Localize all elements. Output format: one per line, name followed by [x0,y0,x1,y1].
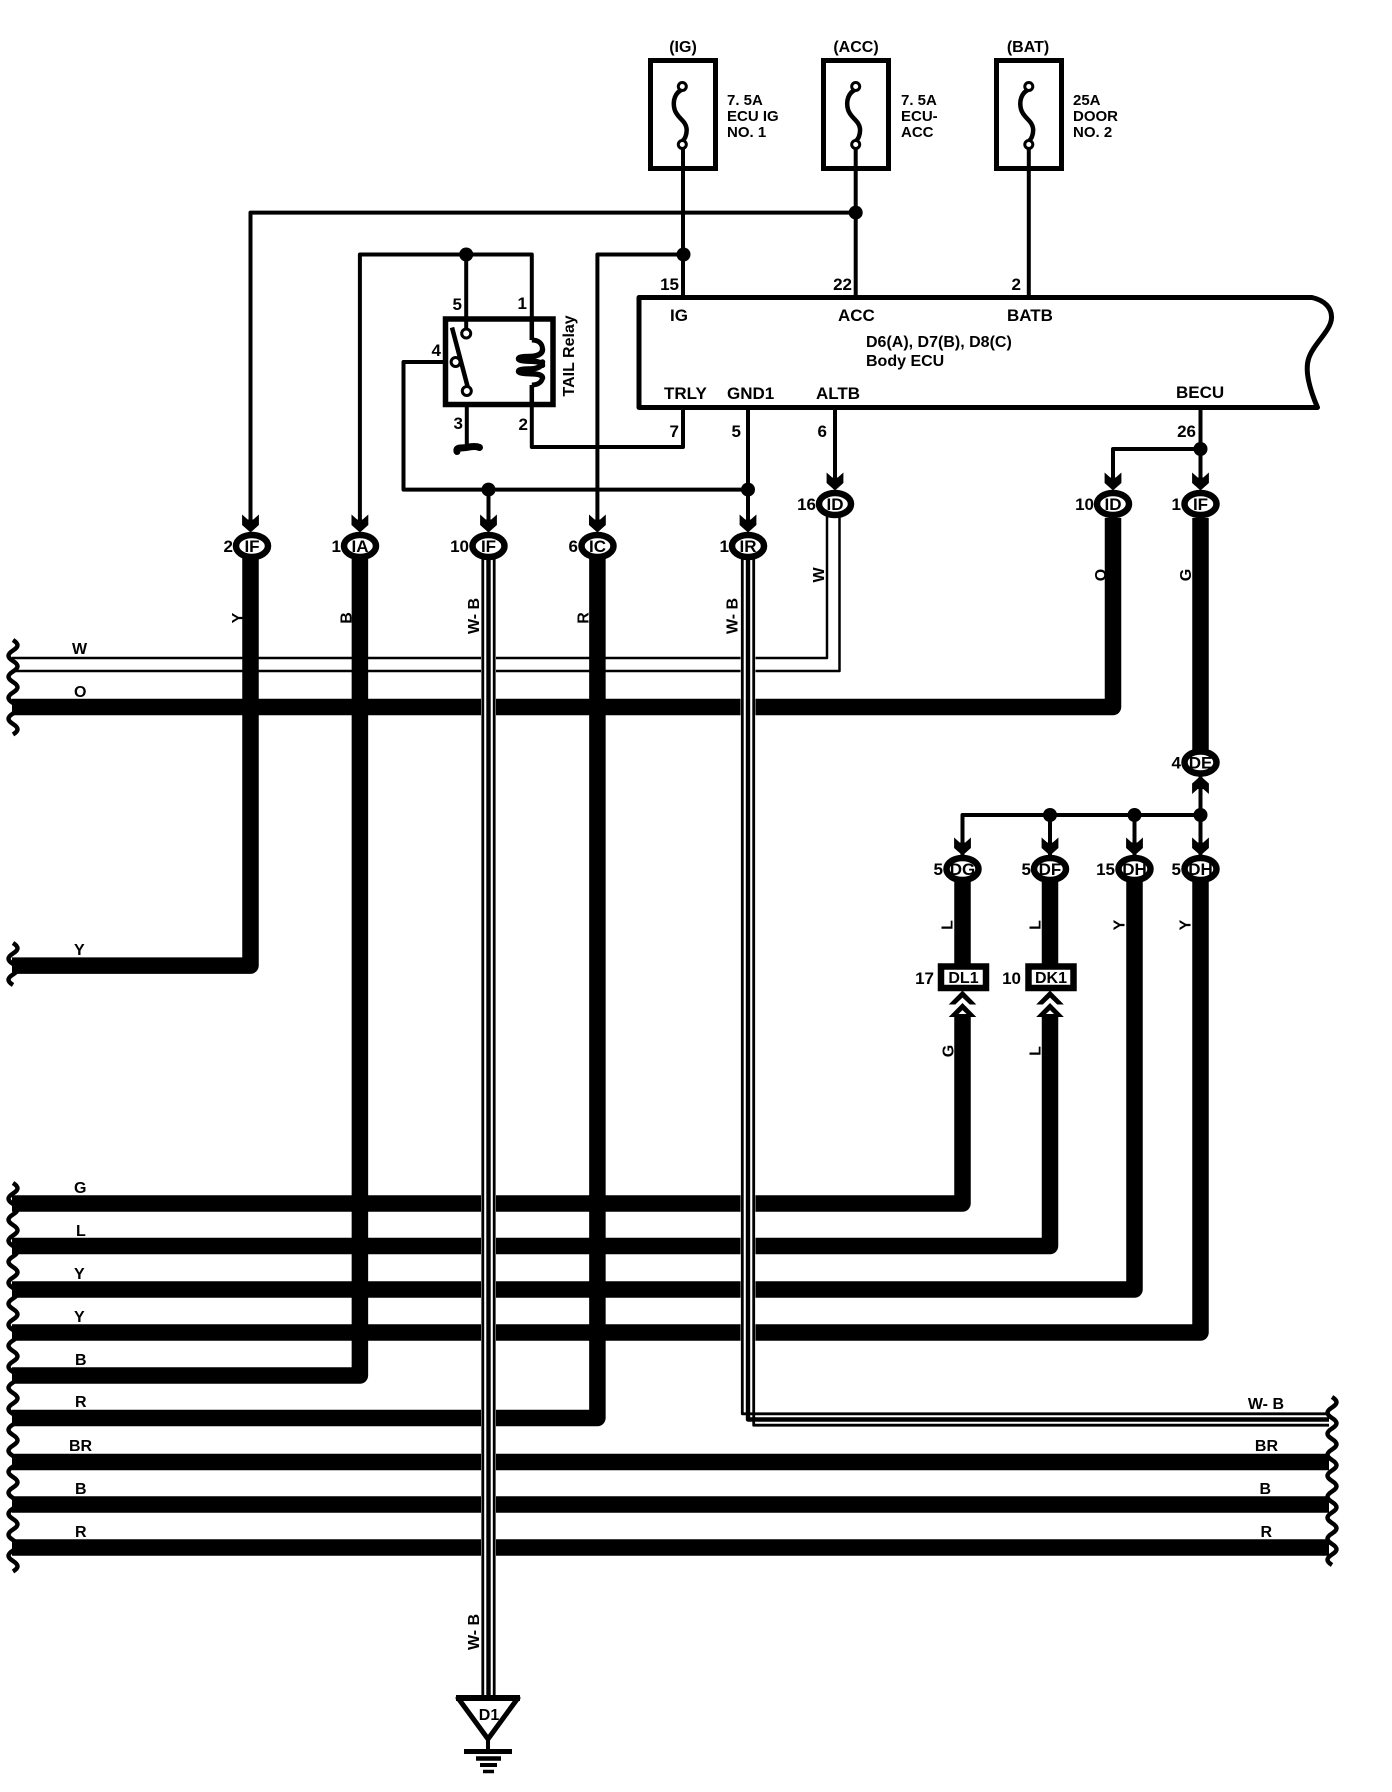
svg-text:L: L [940,920,957,930]
wire relay pin 2 to ECU pin 7 TRLY [532,404,683,447]
junction GND1 rail at IF10 [482,483,496,497]
Body ECU box D6(A) D7(B) D8(C) [639,298,1332,408]
svg-text:1: 1 [720,537,729,556]
arrow into DG [954,838,971,856]
svg-text:W- B: W- B [466,1614,483,1650]
connector IA [332,535,376,557]
connector IF2 [224,535,268,557]
svg-text:IF: IF [1193,495,1208,514]
svg-text:17: 17 [915,969,934,988]
wire L from DF to DK1 [1042,879,1059,967]
relay coil [519,316,543,407]
svg-text:IF: IF [481,537,496,556]
junction rail at DH5 [1194,808,1208,822]
arrow into IC [589,515,606,533]
arrow into IF10 [480,515,497,533]
relay contact pin 3 [462,387,471,396]
body ground below relay pin 3 [457,447,480,452]
wire ECU pin 26 BECU down and branch [1113,408,1201,484]
svg-text:10: 10 [450,537,469,556]
ground D1 earth bars [464,1739,512,1772]
svg-text:16: 16 [797,495,816,514]
ground D1 triangle [456,1698,520,1739]
wire relay pins 5-1 to connector IA [360,255,532,525]
svg-text:D1: D1 [479,1707,500,1724]
connector IR [720,535,764,557]
svg-text:2: 2 [519,415,528,434]
svg-text:IC: IC [589,537,606,556]
junction rail at DF [1043,808,1057,822]
connector DE [1172,752,1217,774]
svg-text:DH: DH [1122,860,1147,879]
svg-text:R: R [576,612,593,624]
svg-text:BECU: BECU [1176,383,1224,402]
svg-text:L: L [1028,1046,1045,1056]
svg-text:4: 4 [432,341,442,360]
wire DE to distribution rail [1199,775,1203,815]
wire W double line from ID16 to left edge [12,512,840,671]
svg-text:10: 10 [1075,495,1094,514]
connector DK1 box [1002,967,1073,989]
wire Y from DH15 to left edge [12,879,1135,1290]
svg-text:ACC: ACC [838,306,875,325]
svg-text:W- B: W- B [466,598,483,634]
wire BR full width [12,1454,1329,1471]
svg-text:G: G [74,1180,86,1197]
svg-text:G: G [1178,569,1195,581]
svg-text:ACC: ACC [901,124,934,141]
svg-text:DOOR: DOOR [1073,108,1118,125]
svg-text:B: B [75,1481,87,1498]
wire L from DG to DL1 [954,879,971,967]
wire fuse ACC to ECU pin 22 [854,148,858,297]
svg-text:W: W [72,641,88,658]
svg-text:B: B [1259,1481,1271,1498]
connector IF10 [450,535,504,557]
svg-text:Y: Y [74,1266,85,1283]
junction GND1 rail at IR [741,483,755,497]
connector ID10 [1075,493,1129,515]
arrow into IF1 [1192,473,1209,491]
svg-text:B: B [75,1352,87,1369]
connector IF1 [1172,493,1217,515]
connector DF [1022,858,1066,880]
squiggle left edge Y [9,943,18,985]
wire W-B striped from IF10 to ground D1 [483,556,494,1700]
svg-text:BR: BR [1255,1438,1279,1455]
double chevron into DL1 [949,991,977,1018]
svg-text:1: 1 [332,537,341,556]
squiggle right edge [1328,1397,1337,1565]
wire L from DK1 to left edge [12,1014,1050,1246]
wire Y from DH5 to left edge [12,879,1201,1333]
arrow into ID10 [1105,473,1122,491]
svg-text:DG: DG [950,860,976,879]
junction rail at DH15 [1128,808,1142,822]
svg-text:DF: DF [1039,860,1062,879]
svg-text:TRLY: TRLY [664,384,707,403]
connector ID16 [797,493,851,515]
arrow into IF2 [242,515,259,533]
svg-text:G: G [941,1045,958,1057]
svg-text:5: 5 [453,295,462,314]
arrow into DF [1042,838,1059,856]
connector DH15 [1096,858,1150,880]
arrow into IA [352,515,369,533]
svg-text:26: 26 [1177,422,1196,441]
arrow into ID16 [827,473,844,491]
svg-text:5: 5 [1172,860,1181,879]
svg-text:DH: DH [1188,860,1213,879]
svg-text:L: L [76,1223,86,1240]
connector DL1 box [915,967,986,989]
wire Y from IF2 to left edge [12,556,251,966]
wire B full width [12,1496,1329,1513]
svg-text:5: 5 [1022,860,1031,879]
fuse ACC (7.5A ECU-ACC) [824,39,938,169]
svg-text:D6(A), D7(B), D8(C): D6(A), D7(B), D8(C) [866,334,1012,351]
relay switch arm [452,328,469,391]
svg-text:4: 4 [1172,754,1182,773]
svg-text:W- B: W- B [1248,1396,1284,1413]
svg-text:ECU-: ECU- [901,108,938,125]
double chevron into DK1 [1036,991,1064,1018]
svg-text:O: O [74,684,86,701]
wire W-B striped from IR to right edge [742,556,1329,1425]
svg-text:5: 5 [732,422,741,441]
connector IC [569,535,614,557]
svg-text:GND1: GND1 [727,384,774,403]
svg-text:7. 5A: 7. 5A [727,92,763,109]
wire fuse BAT to ECU pin 2 [1027,148,1031,297]
wire ACC branch to connector IF2 [251,213,856,524]
svg-text:(IG): (IG) [669,39,697,56]
svg-text:6: 6 [818,422,827,441]
svg-text:BATB: BATB [1007,306,1053,325]
wire relay pin 5 stub [464,255,468,331]
svg-text:R: R [1260,1524,1272,1541]
svg-text:Y: Y [74,1309,85,1326]
svg-text:ECU IG: ECU IG [727,108,779,125]
svg-text:ID: ID [1105,495,1122,514]
svg-text:Y: Y [1112,919,1129,930]
squiggle left edge W O [9,640,18,735]
svg-text:10: 10 [1002,969,1021,988]
svg-text:W- B: W- B [725,598,742,634]
svg-text:BR: BR [69,1438,93,1455]
arrow into DH5 [1192,838,1209,856]
relay contact pin 4 [451,358,460,367]
svg-text:Y: Y [74,942,85,959]
svg-text:2: 2 [1012,275,1021,294]
svg-text:IF: IF [244,537,259,556]
svg-text:TAIL Relay: TAIL Relay [561,315,578,396]
arrow into IR [740,515,757,533]
junction IG branch [677,248,691,262]
svg-text:NO. 2: NO. 2 [1073,124,1112,141]
wire R full width [12,1539,1329,1556]
wire relay pin 4 to GND1 rail [404,362,749,490]
connector DH5 [1172,858,1217,880]
junction relay pin 5 [459,248,473,262]
svg-text:R: R [75,1524,87,1541]
svg-text:15: 15 [1096,860,1115,879]
junction BECU branch [1194,442,1208,456]
svg-text:6: 6 [569,537,578,556]
wire B from IA to left edge [12,556,360,1376]
svg-text:2: 2 [224,537,233,556]
relay contact pin 5 [462,329,471,338]
svg-text:Y: Y [230,612,247,623]
svg-text:5: 5 [934,860,943,879]
svg-text:B: B [339,612,356,624]
svg-text:DK1: DK1 [1035,970,1067,987]
wire IG branch to connector IC [597,255,683,525]
wire ECU pin 6 ALTB down to ID16 [833,408,837,484]
svg-text:ID: ID [827,495,844,514]
wire stub GND1 rail to IF10 [487,490,491,524]
arrow into DH15 [1126,838,1143,856]
wire G from IF1 to DE [1192,518,1209,750]
svg-text:W: W [811,567,828,583]
svg-text:L: L [1028,920,1045,930]
svg-text:1: 1 [518,294,527,313]
svg-text:15: 15 [660,275,679,294]
svg-text:3: 3 [454,414,463,433]
svg-text:ALTB: ALTB [816,384,860,403]
svg-text:7: 7 [670,422,679,441]
svg-text:DE: DE [1189,754,1213,773]
svg-text:7. 5A: 7. 5A [901,92,937,109]
wire R from IC to left edge [12,556,597,1418]
arrow up into DE [1192,776,1209,794]
junction ACC branch [849,206,863,220]
svg-text:22: 22 [833,275,852,294]
svg-text:IG: IG [670,306,688,325]
svg-text:(ACC): (ACC) [833,39,878,56]
wire fuse IG to ECU pin 15 [681,148,685,297]
svg-text:O: O [1093,569,1110,581]
squiggle left edge bundle [9,1183,18,1572]
relay TAIL Relay box [446,315,579,404]
wire G from DL1 to left edge [12,1014,963,1204]
distribution rail to DG DF DH DH [963,815,1201,855]
svg-text:Y: Y [1178,919,1195,930]
fuse BAT (25A DOOR NO.2) [997,39,1119,169]
svg-text:DL1: DL1 [948,970,978,987]
svg-text:R: R [75,1394,87,1411]
svg-text:25A: 25A [1073,92,1101,109]
wire relay pin 3 to body ground [465,404,469,446]
wire O from ID10 to left edge [12,518,1113,707]
svg-text:(BAT): (BAT) [1007,39,1049,56]
svg-text:Body ECU: Body ECU [866,353,944,370]
fuse IG (7.5A ECU IG NO.1) [651,39,779,169]
connector DG [934,858,979,880]
wire ECU pin 5 GND1 down to IR [746,408,750,525]
svg-text:IR: IR [740,537,757,556]
svg-text:1: 1 [1172,495,1181,514]
svg-text:NO. 1: NO. 1 [727,124,766,141]
svg-text:IA: IA [352,537,369,556]
